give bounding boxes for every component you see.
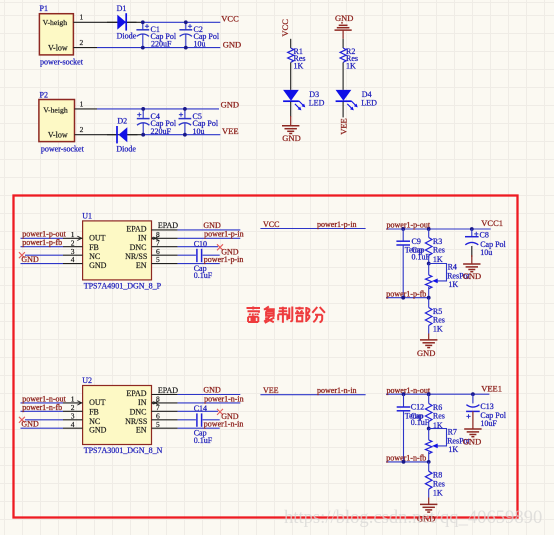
svg-text:C13: C13 xyxy=(480,402,493,411)
wire power1-n-out rail xyxy=(386,393,489,395)
svg-text:C12: C12 xyxy=(411,403,424,412)
diode D2 xyxy=(107,116,138,153)
svg-text:1K: 1K xyxy=(448,445,458,454)
resistor R8 xyxy=(425,462,445,504)
svg-text:1: 1 xyxy=(80,13,84,22)
svg-text:DNC: DNC xyxy=(130,408,147,417)
pin 1 of U1 xyxy=(63,230,83,241)
svg-text:power1-p-in: power1-p-in xyxy=(204,230,244,239)
node C8 top xyxy=(470,227,474,231)
wire power1-p-out (U1 pin1) xyxy=(21,237,64,239)
svg-text:Res: Res xyxy=(433,246,445,255)
svg-text:GND: GND xyxy=(21,255,39,264)
capacitor C14 xyxy=(178,404,220,445)
svg-text:GND: GND xyxy=(89,425,107,434)
wire R2 to D4 xyxy=(342,62,344,90)
svg-text:5: 5 xyxy=(156,420,160,429)
svg-text:VEE: VEE xyxy=(263,386,279,395)
svg-text:10u: 10u xyxy=(480,248,492,257)
svg-text:GND: GND xyxy=(282,133,300,143)
wire P2 pin2 to VEE xyxy=(99,134,143,136)
svg-text:LED: LED xyxy=(309,99,325,108)
svg-text:V-heigh: V-heigh xyxy=(43,18,68,27)
svg-text:IN: IN xyxy=(138,234,147,243)
svg-text:power-socket: power-socket xyxy=(40,57,84,66)
wire pin5 power1-p-in xyxy=(178,263,220,265)
wire pin7 stub xyxy=(178,246,218,248)
pin 8 of U2 xyxy=(152,395,178,406)
svg-text:0.1uF: 0.1uF xyxy=(194,271,213,280)
pin 5 of U1 xyxy=(152,255,178,264)
svg-text:Res: Res xyxy=(433,412,445,421)
svg-text:R6: R6 xyxy=(433,403,442,412)
resistor R6 xyxy=(425,394,445,430)
pin 5 of U2 xyxy=(152,420,178,429)
connector P2 xyxy=(39,91,85,154)
wire D4 to VEE xyxy=(342,102,344,118)
node R5 top xyxy=(427,296,431,300)
svg-text:power1-n-fb: power1-n-fb xyxy=(386,454,426,463)
wire pin5 power1-n-in xyxy=(178,427,220,429)
svg-text:10u: 10u xyxy=(194,40,206,49)
potentiometer R7 xyxy=(426,428,471,462)
svg-text:1K: 1K xyxy=(448,280,458,289)
pin EPAD of U1 xyxy=(152,221,179,230)
wire power1-n-fb rail xyxy=(386,461,429,463)
svg-text:Diode: Diode xyxy=(116,144,136,153)
node R6/R7 junction xyxy=(427,427,431,431)
capacitor C5 xyxy=(179,107,219,137)
wire R1 to D3 xyxy=(290,62,292,90)
wire VCC to power1-p-in xyxy=(260,228,365,230)
wire pin7 stub U2 xyxy=(178,410,218,412)
node C13 top xyxy=(471,392,475,396)
wire P1 pin2 to GND xyxy=(97,47,220,49)
wire P2 pin1 to GND xyxy=(97,108,219,110)
pin 3 of U1 xyxy=(63,247,83,256)
svg-text:D1: D1 xyxy=(117,4,127,13)
svg-text:power1-p-fb: power1-p-fb xyxy=(386,289,426,298)
pin 1 of P1 xyxy=(73,13,97,23)
svg-text:1K: 1K xyxy=(433,325,443,334)
svg-text:power1-n-out: power1-n-out xyxy=(387,386,431,395)
svg-text:V-low: V-low xyxy=(48,130,68,139)
svg-text:2: 2 xyxy=(80,125,84,134)
ground GND (below D3) xyxy=(282,116,301,143)
pin 8 of U1 xyxy=(152,230,178,241)
diode D1 xyxy=(107,4,137,40)
svg-text:GND: GND xyxy=(203,385,221,394)
pin 2 of P1 xyxy=(73,38,97,48)
svg-text:R7: R7 xyxy=(448,428,457,437)
svg-text:5: 5 xyxy=(156,255,160,264)
pin 4 of U2 xyxy=(63,420,83,429)
svg-text:DNC: DNC xyxy=(130,243,147,252)
svg-text:GND: GND xyxy=(89,261,107,270)
svg-text:U1: U1 xyxy=(82,211,92,220)
wire U1 pin3 stub xyxy=(25,254,63,256)
no-ERC marker (U1 pin7) xyxy=(217,244,223,250)
pin 6 of U1 xyxy=(152,247,178,256)
svg-text:FB: FB xyxy=(89,243,99,252)
svg-text:EN: EN xyxy=(136,261,147,270)
ground below C8 xyxy=(463,255,481,281)
svg-text:U2: U2 xyxy=(82,376,92,385)
svg-text:4: 4 xyxy=(71,255,75,264)
pin 7 of U1 xyxy=(152,238,178,247)
svg-text:EPAD: EPAD xyxy=(158,386,178,395)
svg-text:1: 1 xyxy=(80,99,84,108)
svg-text:EPAD: EPAD xyxy=(158,221,178,230)
svg-text:EN: EN xyxy=(136,425,147,434)
svg-text:EPAD: EPAD xyxy=(126,225,146,234)
wire pin8 power1-p-in xyxy=(178,237,241,239)
pin 1 of P2 xyxy=(75,99,98,109)
wire power1-p-fb rail xyxy=(386,297,429,299)
svg-text:VCC: VCC xyxy=(221,14,239,24)
pin 6 of U2 xyxy=(152,411,178,420)
ground below R8 xyxy=(417,504,437,523)
svg-text:C10: C10 xyxy=(194,239,207,248)
pin 2 of U2 xyxy=(63,403,83,412)
svg-text:TPS7A3001_DGN_8_N: TPS7A3001_DGN_8_N xyxy=(84,446,163,455)
wire EPAD to GND label xyxy=(178,229,241,231)
svg-text:power-socket: power-socket xyxy=(41,144,85,153)
wire GND (U2 pin4) xyxy=(21,427,64,429)
no-ERC marker (U2 pin3) xyxy=(19,417,25,423)
node R6 top xyxy=(427,392,431,396)
svg-text:https://blog.csdn.net/qq_40659: https://blog.csdn.net/qq_40659890 xyxy=(284,507,542,528)
capacitor C10 xyxy=(178,239,220,280)
pin 3 of U2 xyxy=(63,411,83,420)
ground below R5 xyxy=(417,340,437,358)
svg-text:Res: Res xyxy=(433,479,445,488)
svg-text:EPAD: EPAD xyxy=(126,389,146,398)
svg-text:power1-p-in: power1-p-in xyxy=(204,255,244,264)
power port GND (LED column 2 top) xyxy=(335,13,354,39)
svg-text:power1-n-fb: power1-n-fb xyxy=(22,403,62,412)
resistor R2 xyxy=(340,47,358,70)
svg-text:GND: GND xyxy=(221,100,239,110)
svg-text:R8: R8 xyxy=(433,470,442,479)
pin 2 of P2 xyxy=(75,125,100,135)
capacitor C9 xyxy=(396,229,430,298)
svg-text:GND: GND xyxy=(21,420,39,429)
pin 2 of U1 xyxy=(63,238,83,247)
wire pin8 power1-n-in xyxy=(178,402,241,404)
svg-text:VCC1: VCC1 xyxy=(481,218,503,228)
resistor R1 xyxy=(288,47,306,70)
op-amp U2 regulator TPS7A3001 xyxy=(82,376,162,455)
svg-text:VEE1: VEE1 xyxy=(481,383,502,393)
svg-text:GND: GND xyxy=(203,221,221,230)
resistor R5 xyxy=(425,298,445,340)
svg-text:TPS7A4901_DGN_8_P: TPS7A4901_DGN_8_P xyxy=(84,281,162,290)
svg-text:OUT: OUT xyxy=(89,234,106,243)
svg-text:10uF: 10uF xyxy=(480,419,497,428)
potentiometer R4 xyxy=(426,263,471,298)
wire GND (U1 pin4) xyxy=(21,263,64,265)
svg-text:power1-p-in: power1-p-in xyxy=(317,220,357,229)
svg-text:Res: Res xyxy=(433,315,445,324)
pin 7 of U2 xyxy=(152,403,178,412)
LED D3 xyxy=(283,90,324,111)
svg-text:0.1uF: 0.1uF xyxy=(194,436,213,445)
svg-text:C14: C14 xyxy=(194,404,207,413)
wire U2 EPAD to GND label xyxy=(178,394,241,396)
wire U2 pin3 stub xyxy=(25,419,63,421)
node C9 top xyxy=(401,227,405,231)
node R3 top xyxy=(427,227,431,231)
capacitor C2 xyxy=(179,20,219,49)
svg-text:power1-n-in: power1-n-in xyxy=(204,394,244,403)
svg-text:220uF: 220uF xyxy=(151,127,172,136)
op-amp U1 regulator TPS7A4901 xyxy=(82,211,161,290)
svg-text:GND: GND xyxy=(223,39,241,49)
svg-text:10u: 10u xyxy=(193,127,205,136)
svg-text:FB: FB xyxy=(89,408,99,417)
wire power1-n-fb (U2 pin2) xyxy=(21,410,64,412)
power port VCC (LED column 1) xyxy=(280,19,291,48)
no-ERC marker (U1 pin3) xyxy=(19,252,25,258)
svg-text:Diode: Diode xyxy=(117,31,137,40)
wire power1-n-out (U2 pin1) xyxy=(21,402,64,404)
pin EPAD of U2 xyxy=(152,386,179,395)
node C12 bottom xyxy=(402,460,406,464)
svg-text:1K: 1K xyxy=(346,61,356,70)
svg-text:GND: GND xyxy=(463,271,481,281)
svg-text:R4: R4 xyxy=(448,263,457,272)
capacitor C8 xyxy=(465,229,507,257)
svg-text:V-low: V-low xyxy=(48,44,68,53)
svg-text:P1: P1 xyxy=(40,4,48,13)
svg-text:C8: C8 xyxy=(480,230,489,239)
pin 1 of U2 xyxy=(63,395,83,406)
connector P1 xyxy=(39,4,83,66)
capacitor C13 xyxy=(466,394,507,429)
svg-text:1K: 1K xyxy=(433,255,443,264)
capacitor C4 xyxy=(137,107,177,137)
node R3/R4 junction xyxy=(427,262,431,266)
pin 4 of U1 xyxy=(63,255,83,264)
resistor R3 xyxy=(425,229,445,264)
svg-text:IN: IN xyxy=(138,398,147,407)
ground below C13 xyxy=(463,429,482,446)
capacitor C12 xyxy=(397,394,430,462)
svg-text:VCC: VCC xyxy=(280,19,290,37)
svg-text:V-heigh: V-heigh xyxy=(43,105,68,114)
svg-text:P2: P2 xyxy=(40,91,48,100)
svg-text:220uF: 220uF xyxy=(151,40,172,49)
wire VEE to power1-n-in xyxy=(260,394,365,396)
svg-text:VEE: VEE xyxy=(222,126,239,136)
svg-text:1K: 1K xyxy=(433,489,443,498)
red highlight box xyxy=(14,196,518,518)
node C9 bottom xyxy=(401,296,405,300)
svg-text:VEE: VEE xyxy=(339,118,349,135)
svg-text:power1-p-out: power1-p-out xyxy=(387,221,431,230)
svg-text:power1-n-in: power1-n-in xyxy=(204,420,244,429)
svg-text:D2: D2 xyxy=(117,116,127,125)
wire power1-p-out rail xyxy=(386,228,491,230)
svg-text:C9: C9 xyxy=(412,237,421,246)
svg-text:GND: GND xyxy=(417,348,435,358)
node R8 top xyxy=(427,460,431,464)
svg-text:GND: GND xyxy=(335,13,353,23)
text 需复制部分 (red note) xyxy=(247,307,325,323)
svg-text:LED: LED xyxy=(361,99,377,108)
svg-text:OUT: OUT xyxy=(89,398,106,407)
svg-text:0.1uF: 0.1uF xyxy=(411,418,430,427)
svg-text:VCC: VCC xyxy=(263,220,279,229)
wire power1-p-fb (U1 pin2) xyxy=(21,246,64,248)
svg-text:2: 2 xyxy=(80,38,84,47)
wire P1 pin1 to VCC xyxy=(97,21,143,23)
svg-text:0.1uF: 0.1uF xyxy=(412,252,431,261)
svg-text:1K: 1K xyxy=(294,61,304,70)
LED D4 xyxy=(336,90,377,111)
capacitor C1 xyxy=(136,20,176,49)
svg-text:power1-p-fb: power1-p-fb xyxy=(22,238,62,247)
svg-text:4: 4 xyxy=(71,420,75,429)
svg-text:power1-n-in: power1-n-in xyxy=(317,386,357,395)
wire D3 to GND xyxy=(290,102,292,117)
wire GND to R2 xyxy=(342,39,344,48)
node C12 top xyxy=(402,392,406,396)
svg-text:GND: GND xyxy=(463,436,481,446)
no-ERC marker (U2 pin7) xyxy=(217,409,223,415)
